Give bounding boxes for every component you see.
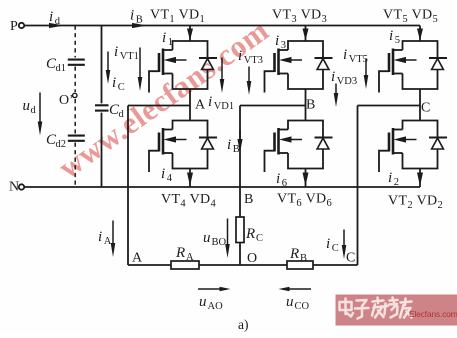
current label i4 [161,166,173,184]
diode VD4 (antiparallel) [199,138,217,150]
svg-text:6: 6 [282,178,287,189]
svg-text:VD3: VD3 [337,76,357,87]
capacitor Cd2 [46,132,85,150]
wire: positive DC rail P [24,25,420,27]
svg-text:u: u [23,98,31,114]
svg-text:R: R [245,226,255,242]
capacitor Cd1 [46,56,85,74]
svg-text:VT3 VD3: VT3 VD3 [272,8,327,25]
svg-text:d: d [55,16,61,27]
svg-text:B: B [306,98,315,113]
svg-text:i: i [112,75,116,91]
svg-text:i: i [114,44,118,60]
wire: DC-link capacitor branch [101,26,103,188]
diode VD6 (antiparallel) [315,138,333,150]
switch cell VT5/VD5 frame wiring [403,41,438,89]
svg-text:A: A [195,98,206,113]
switch cell VT3/VD3 frame wiring [288,41,323,89]
terminal N [9,180,24,195]
svg-text:VT5: VT5 [349,54,368,65]
svg-text:VT3: VT3 [244,55,263,66]
wire: leg B midpoint [305,89,307,121]
transistor VT5 (MOSFET) [379,49,417,93]
svg-text:AO: AO [208,301,224,312]
label VT2 VD2 [388,194,443,211]
svg-text:Elecfans.com: Elecfans.com [409,309,457,319]
svg-text:i: i [98,229,102,245]
svg-text:C: C [346,251,355,266]
svg-text:R: R [289,246,299,262]
wire: feed P rail to VT3 with current arrow i3 [303,26,309,42]
current arrow i_A [98,221,115,258]
voltage arrow u_AO [198,287,231,313]
wire: feed P rail to VT1 with current arrow i1 [187,26,193,42]
svg-text:A: A [132,251,143,266]
svg-text:d: d [31,105,37,116]
svg-text:i: i [276,171,280,187]
svg-text:i: i [161,166,165,182]
diode VD1 (antiparallel) [199,58,217,70]
wire: phase C output (midpoint to load drop) [358,106,421,266]
wire: VT6 to N rail with arrow [303,169,309,188]
svg-text:VT1 VD1: VT1 VD1 [150,8,205,25]
current label i2 [388,170,399,188]
current arrow i_VD3 [331,69,357,107]
terminal P [10,19,24,34]
transistor VT6 (MOSFET) [265,128,303,172]
transistor VT2 (MOSFET) [379,128,417,172]
svg-text:i: i [238,48,242,64]
svg-text:BO: BO [212,237,227,248]
svg-text:i: i [326,236,330,252]
svg-text:VT4 VD4: VT4 VD4 [161,192,217,209]
label VT5 VD5 [383,8,438,25]
svg-text:4: 4 [167,173,173,184]
current arrow i_C (DC-link capacitor) [106,52,125,94]
svg-text:C: C [332,243,339,254]
svg-text:d2: d2 [56,139,67,150]
svg-text:a): a) [238,317,249,332]
svg-text:i: i [130,8,134,24]
svg-text:d1: d1 [56,63,67,74]
resistor RC [236,217,263,265]
svg-text:R: R [175,245,185,261]
current arrow i_VD1 [208,58,234,113]
watermark www.elecfans.com [52,12,275,185]
diode VD5 (antiparallel) [429,58,447,70]
svg-text:i: i [49,9,53,25]
svg-text:B: B [233,144,240,155]
watermark banner 电子发烧友 Elecfans.com [336,295,457,326]
current label i6 [276,171,287,189]
transistor VT3 (MOSFET) [265,49,303,93]
voltage arrow u_CO [279,287,312,313]
svg-text:A: A [104,236,112,247]
switch cell VT6/VD6 frame wiring [288,121,323,169]
svg-text:VT2 VD2: VT2 VD2 [388,194,443,211]
current arrow i_VT3 [238,48,263,95]
svg-text:O’: O’ [59,93,74,108]
node B (lower label) [244,192,253,207]
svg-text:d: d [119,109,125,120]
svg-text:C: C [118,82,125,93]
svg-text:i: i [331,69,335,85]
node O' (capacitor midpoint) [59,93,77,108]
switch cell VT4/VD4 frame wiring [173,121,208,169]
svg-text:5: 5 [395,35,400,46]
current label i1 [162,30,173,48]
wire: phase A output (midpoint to load drop) [128,106,190,266]
svg-text:u: u [286,294,294,310]
transistor VT4 (MOSFET) [149,128,187,172]
wire: VT4 to N rail with arrow [187,169,193,188]
current arrow i_VT1 [114,44,142,91]
svg-text:B: B [300,253,307,264]
wire: VT2 to N rail with arrow [417,169,423,188]
wire: feed P rail to VT5 with current arrow i5 [417,26,423,42]
svg-text:i: i [389,28,393,44]
svg-text:P: P [10,19,18,34]
voltage arrow u_BO [203,219,230,259]
node B (midpoint label) [306,98,315,113]
switch cell VT2/VD2 frame wiring [403,121,438,169]
svg-text:O: O [247,251,257,266]
voltage arrow u_d [23,93,43,136]
current arrow i_B on DC rail [130,8,147,29]
svg-text:i: i [275,33,279,49]
node C (load) [346,251,355,266]
svg-text:i: i [208,94,212,110]
caption a) [238,317,249,332]
svg-text:u: u [199,294,207,310]
svg-text:i: i [162,30,166,46]
svg-text:i: i [343,47,347,63]
node A (load) [132,251,143,266]
label VT1 VD1 [150,8,205,25]
label VT4 VD4 [161,192,217,209]
diode VD3 (antiparallel) [315,58,333,70]
wire: leg A midpoint [189,89,191,121]
svg-text:A: A [186,252,194,263]
resistor RB [287,246,313,269]
capacitor Cd [95,102,125,120]
current arrow i_C (phase) [326,230,346,260]
node A (midpoint label) [195,98,206,113]
svg-text:VT6 VD6: VT6 VD6 [277,192,332,209]
wire: phase B output (midpoint to load drop) [240,106,306,218]
current arrow i_d [49,9,64,28]
diode VD2 (antiparallel) [429,138,447,150]
svg-text:2: 2 [394,177,399,188]
wire: negative DC rail N [24,186,420,188]
wire: leg C midpoint [419,89,421,121]
svg-text:i: i [227,137,231,153]
svg-text:CO: CO [295,301,310,312]
svg-text:C: C [421,101,430,116]
svg-text:N: N [9,180,19,195]
current label i5 [389,28,400,46]
wire: load line A-O-C [128,264,358,266]
switch cell VT1/VD1 frame wiring [173,41,208,89]
svg-text:VD1: VD1 [214,101,234,112]
svg-text:VT1: VT1 [120,51,139,62]
node O [247,251,257,266]
svg-text:VT5 VD5: VT5 VD5 [383,8,438,25]
svg-text:u: u [203,230,211,246]
label VT6 VD6 [277,192,332,209]
transistor VT1 (MOSFET) [149,49,187,93]
label VT3 VD3 [272,8,327,25]
svg-text:B: B [244,192,253,207]
current arrow i_VT5 [343,47,368,89]
wire: dashed capacitor-midpoint branch [74,26,76,188]
current label i3 [275,33,286,51]
resistor RA [171,245,199,269]
svg-text:i: i [388,170,392,186]
node C (midpoint label) [421,101,430,116]
svg-text:C: C [256,233,263,244]
current arrow i_B (phase, on wire) [227,130,243,155]
svg-text:B: B [136,15,143,26]
